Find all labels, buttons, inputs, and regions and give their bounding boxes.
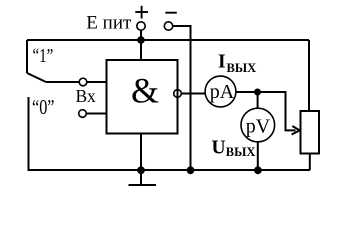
svg-text:&: & [131,71,159,111]
svg-text:pA: pA [210,81,235,103]
svg-text:U: U [212,138,226,159]
svg-text:I: I [218,52,226,73]
svg-text:“1”: “1” [33,45,54,67]
svg-text:“0”: “0” [32,95,55,119]
svg-text:Вх: Вх [76,86,96,106]
svg-text:Е пит: Е пит [86,12,132,33]
svg-text:ВЫХ: ВЫХ [227,61,257,75]
svg-text:ВЫХ: ВЫХ [226,145,256,159]
svg-text:pV: pV [246,116,271,138]
